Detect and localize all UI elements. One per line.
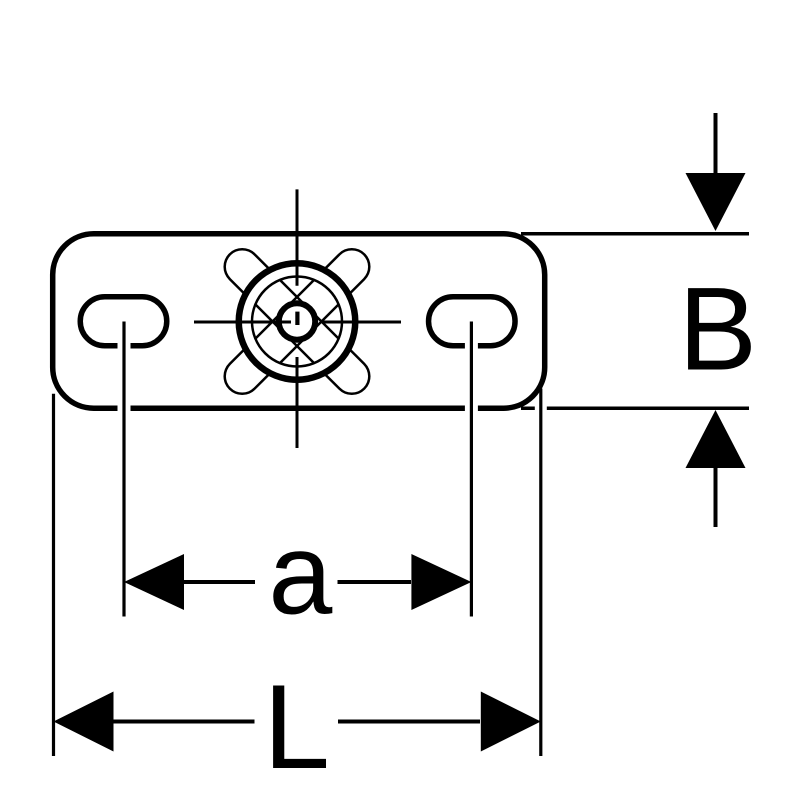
dimension B arrowhead down — [686, 173, 746, 231]
dimension B arrowhead up — [686, 410, 746, 468]
extension line L right — [539, 389, 542, 757]
dimension B arrow up tail — [714, 463, 718, 527]
extension line B top — [521, 232, 749, 236]
vertical centerline bottom dash — [296, 357, 299, 448]
halo gap for right L extension line over B bottom extension — [535, 399, 547, 418]
slot hole left — [80, 297, 167, 346]
cross handle lobe NW — [242, 267, 297, 322]
svg-text:L: L — [263, 660, 330, 794]
slot hole right — [429, 297, 516, 346]
dimension B arrow down tail — [714, 113, 718, 180]
extension line B bottom — [521, 407, 749, 411]
halo gap for right slot extension line — [465, 334, 478, 416]
chord NE (diagonal through N and E) — [280, 280, 339, 339]
extension line L left — [52, 394, 55, 756]
dimension L line left segment — [114, 720, 255, 724]
dimension a arrowhead left — [124, 554, 184, 610]
horizontal centerline right dash — [323, 321, 402, 324]
vertical centerline center dash — [295, 312, 299, 325]
cross handle lobe SW — [242, 322, 297, 377]
dimension L arrowhead right — [481, 692, 541, 752]
chord SE (diagonal through S and E) — [280, 304, 339, 363]
dimension a arrowhead right — [411, 554, 471, 610]
plate outline (rounded mounting plate) — [53, 234, 545, 408]
cross handle lobe SE — [297, 322, 352, 377]
outer thick ring — [239, 263, 356, 380]
chord NW (diagonal through N and W) — [255, 280, 314, 339]
dimension L line right segment — [338, 720, 480, 724]
chord SW (diagonal through S and W) — [255, 304, 314, 363]
horizontal centerline left dash — [194, 321, 291, 324]
halo gap for left slot extension line — [118, 334, 131, 416]
extension line a right (from right slot center) — [470, 322, 473, 617]
svg-text:a: a — [268, 511, 332, 639]
middle thin circle — [252, 277, 342, 367]
dimension a line right segment — [338, 580, 412, 584]
cross handle lobe NE — [297, 267, 352, 322]
dimension L arrowhead left — [54, 692, 114, 752]
extension line a left (from left slot center) — [122, 322, 125, 617]
vertical centerline top dash — [296, 189, 299, 285]
center ring (spindle) — [279, 303, 315, 339]
svg-text:B: B — [678, 264, 757, 396]
dimension a line left segment — [184, 580, 255, 584]
